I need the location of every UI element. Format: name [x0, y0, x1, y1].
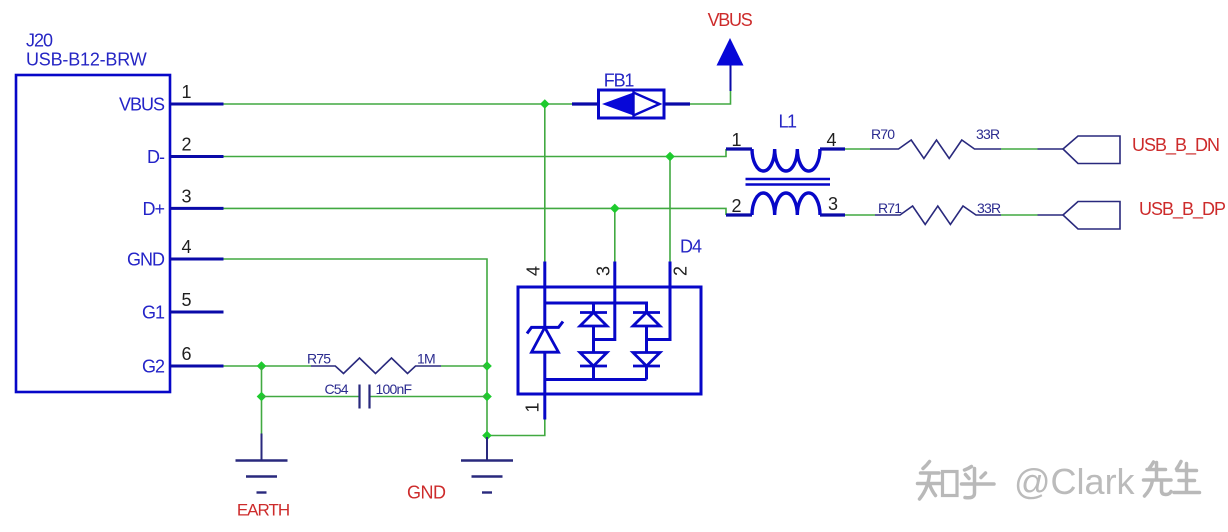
svg-text:33R: 33R [977, 200, 1001, 216]
svg-text:33R: 33R [976, 126, 1000, 142]
node junction on D+ wire [610, 204, 620, 214]
wire D+ branch down to D4 pin3 [614, 208, 616, 261]
svg-text:D4: D4 [680, 237, 702, 257]
D4 internal mid node pin3 [594, 288, 615, 340]
D4 internal bottom rail [545, 380, 647, 394]
svg-text:6: 6 [181, 344, 191, 364]
wire D- net from pin2 to L1 pin1 [224, 149, 727, 157]
port USB_B_DP [1063, 199, 1226, 229]
svg-text:2: 2 [670, 266, 690, 276]
svg-text:1: 1 [731, 130, 741, 150]
svg-text:D-: D- [147, 147, 165, 167]
port USB_B_DN [1063, 135, 1219, 164]
node junction G2 wire left column [257, 361, 267, 371]
port stub USB_B_DN [1038, 148, 1064, 150]
wire R71 to port [1001, 214, 1038, 216]
resistor R70 33R [870, 126, 1001, 159]
wire L1 pin4 to R70 [845, 148, 870, 150]
D4 pin 3 stub [593, 262, 615, 289]
resistor R75 1M [307, 350, 441, 373]
D4 pin 1 stub [522, 393, 545, 420]
svg-text:EARTH: EARTH [237, 501, 289, 520]
wire R75 right lead to GND column [441, 365, 487, 367]
svg-text:1M: 1M [417, 350, 435, 366]
wire C54 right lead [370, 396, 488, 398]
D4 pin 2 stub [670, 262, 690, 289]
resistor R71 33R [875, 200, 1001, 225]
pin 6 G2 of J20 [142, 344, 224, 377]
common mode choke L1 [726, 112, 845, 217]
svg-text:3: 3 [828, 194, 838, 214]
svg-text:USB_B_DN: USB_B_DN [1132, 135, 1219, 156]
svg-text:USB_B_DP: USB_B_DP [1139, 199, 1226, 220]
svg-text:4: 4 [826, 130, 836, 150]
pin 2 D- of J20 [147, 135, 224, 168]
svg-text:VBUS: VBUS [119, 95, 165, 115]
wire G2 net from pin6 to R75 [224, 365, 312, 367]
wire C54 left lead [262, 396, 360, 398]
wire FB1 output to VBUS symbol [690, 91, 731, 104]
watermark zhihu @Clark [918, 461, 1200, 502]
diode pair right inside D4 [633, 313, 660, 380]
pin 3 D+ of J20 [142, 186, 223, 219]
connector J20 body [16, 30, 170, 392]
node junction on VBUS wire [540, 99, 550, 109]
svg-text:100nF: 100nF [376, 381, 412, 397]
svg-text:L1: L1 [778, 112, 797, 132]
wire R70 to port [1001, 148, 1038, 150]
svg-text:4: 4 [181, 237, 191, 257]
node junction on D- wire [665, 152, 675, 162]
svg-text:VBUS: VBUS [708, 10, 753, 30]
wire D+ net from pin3 to L1 pin2 [224, 208, 727, 215]
wire VBUS net from pin1 to FB1 [224, 103, 573, 105]
wire VBUS branch down to D4 pin4 [544, 104, 546, 262]
node junction GND column at C54 row [482, 392, 492, 402]
svg-text:5: 5 [181, 290, 191, 310]
svg-text:D+: D+ [142, 199, 164, 219]
node junction GND column at R75 row [482, 361, 492, 371]
esd array D4 body [518, 237, 702, 395]
ground symbol EARTH [236, 434, 290, 520]
D4 pin 4 stub [523, 262, 545, 289]
node junction GND column bottom [482, 431, 492, 441]
svg-text:@Clark: @Clark [1014, 461, 1136, 502]
pin 1 VBUS of J20 [119, 82, 224, 115]
D4 internal pin4 line [543, 288, 546, 327]
svg-text:1: 1 [522, 402, 542, 412]
svg-text:1: 1 [181, 82, 191, 102]
wire L1 pin3 to R71 [845, 214, 875, 216]
svg-text:R70: R70 [871, 126, 895, 142]
power symbol VBUS [708, 10, 753, 91]
D4 internal top rail [545, 303, 647, 313]
svg-text:USB-B12-BRW: USB-B12-BRW [26, 50, 147, 70]
svg-text:J20: J20 [26, 30, 53, 50]
svg-text:C54: C54 [325, 381, 349, 397]
port stub USB_B_DP [1038, 214, 1064, 216]
svg-text:FB1: FB1 [604, 71, 635, 91]
zener diode inside D4 [527, 322, 563, 380]
wire left column down to C54 and EARTH [261, 366, 263, 434]
wire D- branch down to D4 pin2 [669, 157, 671, 262]
svg-text:R75: R75 [307, 350, 331, 366]
svg-text:R71: R71 [878, 200, 902, 216]
ferrite bead FB1 [572, 71, 690, 119]
svg-text:GND: GND [407, 483, 446, 503]
pin 5 G1 of J20 [142, 290, 224, 323]
node junction left column at C54 row [257, 392, 267, 402]
svg-text:4: 4 [523, 266, 543, 276]
pin 4 GND of J20 [127, 237, 224, 270]
diode pair left inside D4 [580, 313, 607, 380]
svg-text:G1: G1 [142, 303, 165, 323]
capacitor C54 100nF [325, 381, 412, 409]
wire GND net from pin4 down left column [224, 259, 488, 436]
svg-text:G2: G2 [142, 357, 165, 377]
svg-text:3: 3 [181, 186, 191, 206]
svg-text:2: 2 [731, 196, 741, 216]
wire GND bottom run to D4 pin1 [487, 420, 545, 436]
ground symbol GND [407, 437, 513, 503]
svg-text:2: 2 [181, 135, 191, 155]
svg-text:3: 3 [593, 266, 613, 276]
D4 internal mid node pin2 [647, 288, 671, 340]
svg-text:GND: GND [127, 250, 165, 270]
